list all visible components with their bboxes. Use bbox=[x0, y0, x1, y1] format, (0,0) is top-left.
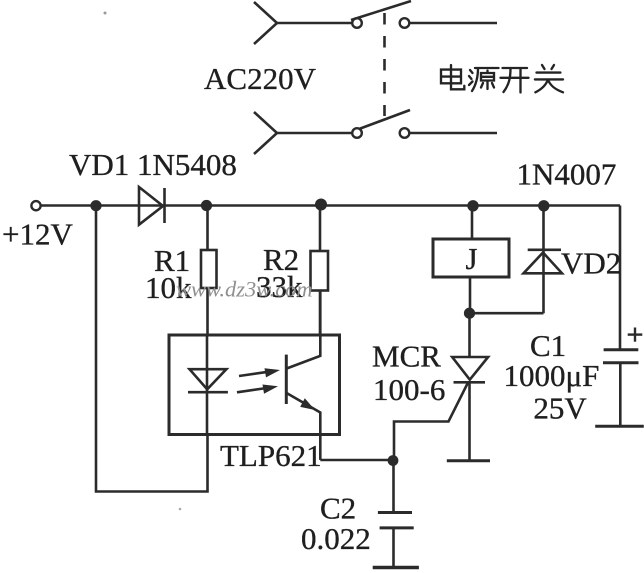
svg-text:J: J bbox=[466, 241, 478, 276]
svg-text:1N4007: 1N4007 bbox=[517, 157, 617, 192]
svg-text:100-6: 100-6 bbox=[373, 372, 445, 407]
svg-text:www.dz3w.com: www.dz3w.com bbox=[176, 277, 313, 302]
svg-text:VD2: VD2 bbox=[561, 246, 621, 281]
svg-text:VD1 1N5408: VD1 1N5408 bbox=[69, 147, 237, 182]
svg-text:1000μF: 1000μF bbox=[504, 358, 600, 393]
svg-text:25V: 25V bbox=[533, 391, 587, 426]
svg-text:AC220V: AC220V bbox=[204, 61, 317, 96]
svg-text:0.022: 0.022 bbox=[301, 521, 371, 556]
svg-text:MCR: MCR bbox=[372, 339, 441, 374]
svg-text:+12V: +12V bbox=[2, 217, 73, 252]
svg-text:TLP621: TLP621 bbox=[220, 438, 322, 473]
